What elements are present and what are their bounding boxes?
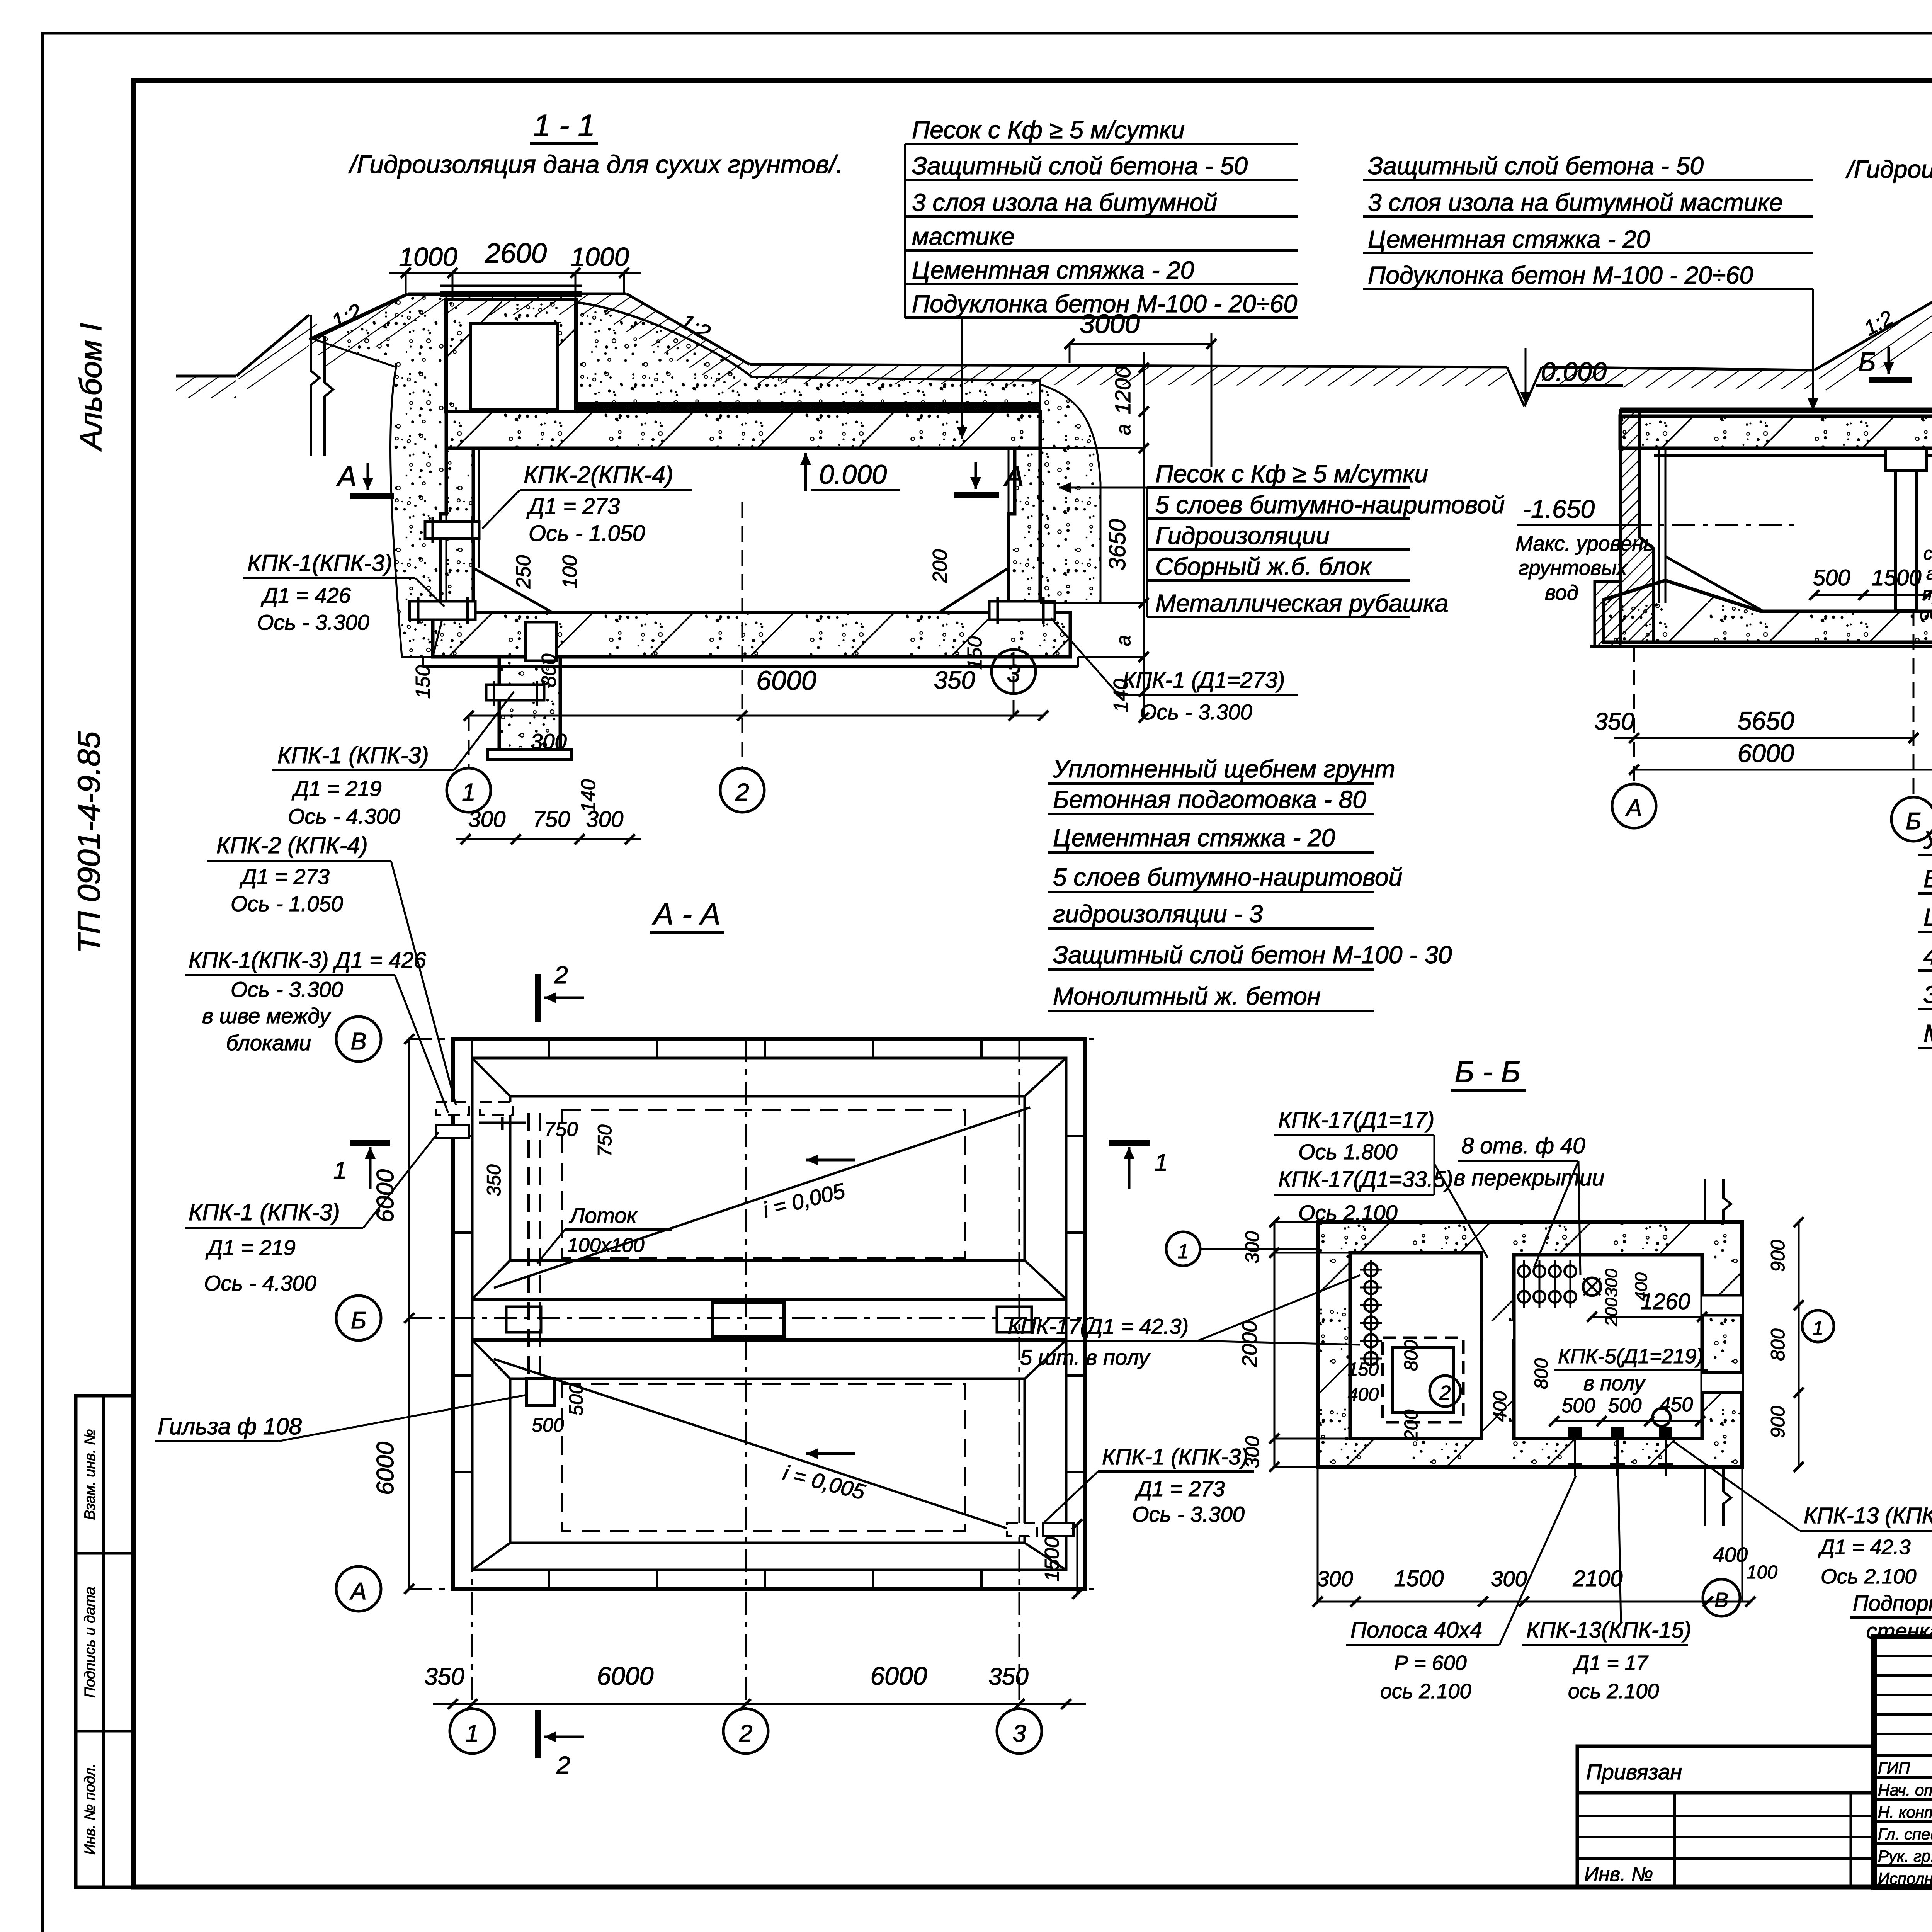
B-B circle 1 right [1802, 1310, 1834, 1342]
svg-text:Альбом I: Альбом I [73, 323, 108, 451]
B-B detail circle 2 [1430, 1376, 1461, 1406]
B-B dashed hatch square [1383, 1338, 1463, 1422]
sidebar bottom cells box [76, 1396, 133, 1887]
svg-text:2000: 2000 [1238, 1321, 1261, 1367]
lower chamber ceiling edge [510, 1379, 1025, 1543]
svg-text:Ось - 1.050: Ось - 1.050 [529, 521, 645, 546]
B-B anchor circle bottom [1653, 1408, 1670, 1426]
B-B circle V bottom [1703, 1579, 1740, 1616]
svg-text:350: 350 [988, 1663, 1028, 1690]
svg-text:Цементная стяжка: Цементная стяжка - 20 [1923, 903, 1932, 931]
svg-text:КПК-1 (КПК-3): КПК-1 (КПК-3) [277, 742, 429, 768]
svg-text:800: 800 [1531, 1358, 1552, 1389]
svg-text:a: a [1112, 635, 1135, 646]
ground level line between sections [750, 364, 1507, 386]
svg-text:750: 750 [533, 807, 570, 832]
central column of 2-2 [1886, 448, 1926, 471]
svg-text:Макс. уровень: Макс. уровень [1515, 532, 1655, 555]
svg-text:2: 2 [1439, 1382, 1451, 1404]
plan axis circle 2 [723, 1709, 768, 1753]
0.000 level mark section 1-1 [804, 453, 807, 491]
dashed sleeve at right wall [1007, 1523, 1037, 1536]
svg-text:3: 3 [1013, 1720, 1026, 1747]
head cover slab lines [440, 291, 582, 297]
backfill soil left of head [314, 295, 446, 657]
svg-text:150: 150 [1348, 1359, 1379, 1380]
svg-text:КПК-2(КПК-4): КПК-2(КПК-4) [524, 462, 673, 488]
section 2-2 floor slab [1604, 580, 1932, 642]
axis circle 1 [447, 768, 491, 812]
section 1-1 pedestal under drain [499, 657, 560, 750]
section 1-1 head block (concrete) [446, 299, 576, 412]
svg-text:Д1 = 273: Д1 = 273 [1134, 1476, 1225, 1501]
svg-text:КПК-5(Д1=219): КПК-5(Д1=219) [1558, 1345, 1703, 1368]
B-B passage between rooms [1483, 1321, 1513, 1339]
svg-text:в полу: в полу [1583, 1372, 1646, 1395]
section 1-1 left lower terrain [176, 376, 236, 398]
svg-text:Ось 1.800: Ось 1.800 [1298, 1139, 1398, 1164]
svg-text:Песок с Кф ≥ 5 м/сутки: Песок с Кф ≥ 5 м/сутки [1155, 460, 1428, 488]
svg-text:750: 750 [544, 1118, 578, 1141]
svg-text:Гильза ф 108: Гильза ф 108 [158, 1413, 302, 1439]
svg-text:блоками: блоками [226, 1031, 311, 1055]
plan axis circle V [336, 1017, 381, 1061]
svg-text:1500: 1500 [1871, 565, 1921, 590]
svg-text:3650: 3650 [1104, 519, 1130, 570]
svg-text:2: 2 [739, 1720, 752, 1747]
svg-text:3 слоя изола на битумной масти: 3 слоя изола на битумной мастике [1368, 189, 1783, 216]
svg-text:6000: 6000 [372, 1442, 399, 1495]
plan section mark 2 bottom [535, 1710, 541, 1758]
KPK-2 pipe sleeve in left wall [425, 522, 479, 539]
svg-text:Ось - 3.300: Ось - 3.300 [1140, 700, 1252, 724]
KPK-1 pipe sleeves bottom left [410, 601, 475, 620]
svg-text:500: 500 [565, 1383, 587, 1416]
svg-text:Ось - 3.300: Ось - 3.300 [231, 977, 343, 1002]
svg-text:300: 300 [1317, 1566, 1353, 1591]
axis circle 2 [720, 768, 764, 812]
ground notch at 0.000 of section 2-2 [1507, 367, 1524, 406]
svg-text:Подпись и дата: Подпись и дата [82, 1587, 98, 1697]
svg-text:Нач. отд.: Нач. отд. [1878, 1781, 1932, 1799]
svg-text:6000: 6000 [871, 1662, 927, 1690]
svg-text:6000: 6000 [1738, 739, 1794, 767]
svg-text:300: 300 [1491, 1566, 1527, 1591]
plan section mark 1 left [350, 1140, 390, 1146]
lower chamber slope diagonal [494, 1359, 1030, 1536]
svg-text:250: 250 [512, 555, 535, 589]
floor transition fillets 2-2 [1665, 556, 1762, 611]
svg-text:400: 400 [1348, 1384, 1379, 1405]
svg-text:А - А: А - А [652, 897, 720, 931]
section 1-1 floor slab [433, 612, 1070, 657]
svg-text:350: 350 [934, 666, 975, 694]
plan axis circle B [336, 1296, 381, 1340]
svg-text:Полоса 40х4: Полоса 40х4 [1350, 1617, 1482, 1643]
svg-text:Р = 600: Р = 600 [1394, 1651, 1467, 1675]
svg-text:КПК-1 (Д1=273): КПК-1 (Д1=273) [1122, 668, 1285, 693]
svg-text:КПК-17(Д1=17): КПК-17(Д1=17) [1278, 1107, 1434, 1133]
roof inner ceiling line [1654, 454, 1932, 457]
svg-text:5 слоев битумно-наиритовой: 5 слоев битумно-наиритовой [1053, 863, 1402, 891]
svg-text:Инв. № подл.: Инв. № подл. [82, 1764, 98, 1855]
svg-text:1500: 1500 [1394, 1566, 1444, 1591]
upper chamber dashed slab edge [562, 1110, 965, 1258]
svg-text:1000: 1000 [399, 242, 457, 272]
svg-text:гидроизоляции: гидроизоляции - 3 [1053, 900, 1263, 928]
svg-text:КПК-1 (КПК-3): КПК-1 (КПК-3) [1102, 1444, 1248, 1469]
svg-text:обрамлению: обрамлению [1920, 604, 1932, 624]
svg-text:А: А [336, 460, 357, 492]
B-B bolts left room [1364, 1263, 1378, 1276]
section 2-2 roof slab [1620, 416, 1932, 448]
svg-text:Песок с Кф ≥ 5 м/сутки: Песок с Кф ≥ 5 м/сутки [912, 116, 1185, 144]
svg-text:Гидроизоляции: Гидроизоляции [1155, 522, 1330, 549]
plan axis circle 1 [450, 1709, 495, 1753]
svg-text:см. КЖИ-18: см. КЖИ-18 [1923, 543, 1932, 563]
section 2-2 left wall (hatched) [1620, 410, 1654, 642]
svg-text:Д1 = 219: Д1 = 219 [291, 776, 382, 801]
svg-text:Б: Б [1858, 347, 1876, 377]
svg-text:/Гидроизоляция дана для водона: /Гидроизоляция дана для водонасыщенных г… [1845, 155, 1932, 183]
svg-text:Д1 = 273: Д1 = 273 [526, 494, 620, 519]
svg-text:1200: 1200 [1111, 366, 1135, 415]
svg-text:КПК-17(Д1 = 42.3): КПК-17(Д1 = 42.3) [1008, 1314, 1189, 1338]
svg-text:0.000: 0.000 [819, 459, 887, 490]
B-B anchor circle top [1583, 1278, 1601, 1296]
svg-text:КПК-13 (КПК-15): КПК-13 (КПК-15) [1804, 1503, 1932, 1528]
svg-text:100х100: 100х100 [567, 1234, 645, 1257]
drain channel dashed vertical [527, 1113, 530, 1383]
svg-text:Б - Б: Б - Б [1455, 1054, 1521, 1088]
section 2-2 left berm slope [1814, 298, 1932, 397]
svg-text:Д1 = 426: Д1 = 426 [260, 583, 351, 607]
section 2-2 axis circles [1633, 646, 1635, 784]
svg-text:Монолитный ж. бетон: Монолитный ж. бетон [1923, 1019, 1932, 1047]
svg-text:Ось - 4.300: Ось - 4.300 [204, 1271, 316, 1295]
svg-text:800: 800 [1767, 1328, 1789, 1361]
svg-text:900: 900 [1767, 1406, 1789, 1438]
B-B main concrete block [1318, 1222, 1742, 1467]
svg-text:300: 300 [586, 807, 624, 832]
svg-text:1: 1 [466, 1720, 479, 1747]
terrain break line [311, 315, 320, 456]
svg-text:200: 200 [1401, 1410, 1422, 1441]
B-B right wall openings [1702, 1295, 1742, 1315]
svg-text:Уплотненный щебнем грунт: Уплотненный щебнем грунт [1053, 755, 1395, 783]
section mark A right [975, 462, 977, 489]
svg-text:Д1 = 273: Д1 = 273 [239, 864, 330, 889]
svg-text:мастике: мастике [912, 223, 1015, 250]
wall block joints [548, 1039, 550, 1058]
floor base plate 2-2 [1590, 645, 1932, 648]
svg-text:грунтовых: грунтовых [1519, 556, 1628, 580]
svg-text:200: 200 [1602, 1298, 1621, 1327]
svg-text:Д1 = 42.3: Д1 = 42.3 [1818, 1536, 1911, 1559]
plan section mark 2 top [535, 974, 541, 1022]
svg-text:1 - 1: 1 - 1 [533, 108, 595, 143]
svg-text:Привязан: Привязан [1586, 1760, 1682, 1784]
drain box inside floor [526, 622, 556, 661]
svg-text:Сборный ж.б. блок: Сборный ж.б. блок [1155, 553, 1372, 580]
svg-text:А: А [1624, 795, 1642, 821]
svg-text:500: 500 [1813, 565, 1850, 590]
svg-text:КПК-13(КПК-15): КПК-13(КПК-15) [1526, 1617, 1691, 1643]
svg-text:300: 300 [1602, 1269, 1621, 1297]
section 1-1 axis lines and circles [468, 716, 470, 767]
svg-text:1: 1 [1178, 1240, 1189, 1263]
svg-text:вод: вод [1545, 581, 1578, 604]
svg-text:Защитный слой бетона: Защитный слой бетона - 50 [1368, 152, 1704, 180]
svg-text:900: 900 [1767, 1240, 1789, 1272]
section 1-1 roof slab [446, 412, 1040, 448]
plan left axis dim lines [408, 1039, 410, 1589]
svg-text:Д1 = 219: Д1 = 219 [205, 1235, 296, 1260]
B-B right room [1514, 1255, 1702, 1439]
svg-text:Бетонная подготовка: Бетонная подготовка - 80 [1053, 786, 1366, 813]
svg-text:Защитный слой бетона - 50: Защитный слой бетона - 50 [912, 152, 1248, 180]
svg-text:1: 1 [462, 778, 476, 806]
svg-text:3: 3 [1007, 660, 1020, 687]
svg-text:800: 800 [538, 654, 560, 687]
svg-text:А: А [1003, 460, 1024, 492]
waterproofing line over roof [576, 402, 1040, 408]
svg-text:Ось 2.100: Ось 2.100 [1821, 1565, 1917, 1588]
extension line at 3135 [1211, 333, 1213, 467]
svg-text:Монолитный ж. бетон: Монолитный ж. бетон [1053, 982, 1321, 1010]
svg-text:6000: 6000 [756, 665, 816, 696]
section 1-1 left wall [440, 448, 473, 603]
svg-text:100: 100 [559, 555, 581, 589]
svg-text:0.000: 0.000 [1541, 357, 1607, 386]
svg-text:Н. контр.: Н. контр. [1878, 1803, 1932, 1821]
svg-text:В: В [350, 1028, 366, 1055]
svg-text:6000: 6000 [597, 1662, 654, 1690]
gilza square [527, 1378, 554, 1406]
svg-text:2: 2 [556, 1751, 570, 1779]
wall inner liner lines [478, 448, 480, 568]
svg-text:2: 2 [554, 961, 568, 989]
svg-text:Взам. инв. №: Взам. инв. № [82, 1429, 98, 1520]
svg-text:Подуклонка бетон М-100 - 2: Подуклонка бетон М-100 - 20÷60 [1368, 261, 1753, 289]
svg-text:альбом II ,: альбом II , [1926, 563, 1932, 583]
svg-text:5650: 5650 [1738, 706, 1794, 735]
svg-text:Защитный слой бетон М-100 - 30: Защитный слой бетон М-100 - 30 [1923, 981, 1932, 1009]
plan middle cross wall [472, 1298, 1066, 1301]
title block stamp [1874, 1636, 1932, 1887]
floor transition fillets [473, 568, 553, 612]
svg-text:1: 1 [333, 1157, 347, 1184]
svg-text:300: 300 [1242, 1231, 1263, 1264]
svg-text:/Гидроизоляция дана для сухих: /Гидроизоляция дана для сухих грунтов/. [348, 150, 843, 179]
plan section mark 1 right [1109, 1140, 1150, 1146]
svg-text:Бетонная подготовка: Бетонная подготовка - 80 [1923, 865, 1932, 893]
svg-text:Д1 = 17: Д1 = 17 [1573, 1651, 1649, 1675]
svg-text:ГИП: ГИП [1878, 1759, 1910, 1777]
svg-text:в шве между: в шве между [202, 1003, 332, 1028]
svg-text:Инв. №: Инв. № [1584, 1863, 1653, 1886]
upper chamber slope diagonal [494, 1107, 1030, 1288]
B-B wall continuation break top [1705, 1179, 1731, 1222]
lower flow arrow [806, 1452, 855, 1455]
B-B circle 1 left [1166, 1232, 1200, 1266]
axis circle B2 [1891, 797, 1932, 841]
axis circle 3 [992, 650, 1036, 694]
svg-text:ось 2.100: ось 2.100 [1568, 1680, 1659, 1703]
svg-text:2600: 2600 [485, 238, 547, 269]
svg-text:1: 1 [1155, 1150, 1168, 1176]
svg-text:400: 400 [1632, 1272, 1651, 1301]
svg-text:5 шт. в полу: 5 шт. в полу [1020, 1345, 1151, 1369]
svg-text:ТП 0901-4-9.85: ТП 0901-4-9.85 [71, 731, 107, 953]
svg-text:350: 350 [424, 1663, 464, 1690]
plan axis circle A [336, 1566, 381, 1611]
axis circle A [1612, 784, 1656, 828]
svg-text:-1.650: -1.650 [1522, 495, 1595, 523]
svg-text:КПК-2 (КПК-4): КПК-2 (КПК-4) [216, 832, 368, 858]
plan outer wall [453, 1039, 1085, 1589]
svg-text:В: В [1714, 1588, 1728, 1612]
svg-text:4 слоя изола на битумной масти: 4 слоя изола на битумной мастике [1923, 942, 1932, 970]
svg-text:8 отв. ф 40: 8 отв. ф 40 [1461, 1133, 1585, 1158]
svg-text:350: 350 [1594, 708, 1634, 735]
svg-text:Ось - 4.300: Ось - 4.300 [288, 804, 400, 828]
floor projecting base plate [423, 665, 1078, 668]
hatched edge left of floor [1595, 582, 1620, 646]
svg-text:Защитный слой бетон М-100 - 3: Защитный слой бетон М-100 - 30 [1053, 941, 1452, 969]
svg-text:2: 2 [735, 778, 749, 806]
svg-text:300: 300 [1242, 1436, 1263, 1468]
svg-text:в перекрытии: в перекрытии [1454, 1165, 1604, 1190]
svg-text:Лоток: Лоток [569, 1203, 638, 1228]
svg-text:КПК-17(Д1=33.5): КПК-17(Д1=33.5) [1278, 1167, 1453, 1192]
backfill soil right beyond wall [1040, 384, 1100, 603]
left lower grid [1577, 1793, 1874, 1887]
svg-text:3 слоя изола на битумной: 3 слоя изола на битумной [912, 189, 1217, 216]
svg-text:Б: Б [1906, 808, 1921, 835]
svg-text:1500: 1500 [1041, 1537, 1063, 1582]
svg-text:Исполн.: Исполн. [1878, 1869, 1932, 1888]
svg-text:350: 350 [483, 1164, 505, 1197]
svg-text:300: 300 [531, 729, 566, 753]
upper flow arrow [806, 1159, 855, 1162]
svg-text:ось 2.100: ось 2.100 [1380, 1680, 1471, 1703]
svg-text:Подпорная: Подпорная [1853, 1591, 1932, 1615]
plan inner wall line [472, 1058, 1066, 1570]
svg-text:500: 500 [1562, 1395, 1595, 1417]
backfill soil wedge above roof [576, 302, 1040, 410]
svg-text:Ось - 3.300: Ось - 3.300 [1132, 1502, 1245, 1526]
svg-text:Цементная стяжка: Цементная стяжка - 20 [1368, 225, 1650, 253]
svg-text:Гл. спец.: Гл. спец. [1878, 1825, 1932, 1843]
svg-text:6000: 6000 [372, 1169, 399, 1223]
plan corner sleeve symbols top-left [436, 1102, 469, 1115]
svg-text:400: 400 [1490, 1391, 1510, 1422]
svg-text:1: 1 [1813, 1317, 1823, 1339]
svg-text:5 слоев битумно-наиритовой: 5 слоев битумно-наиритовой [1155, 491, 1505, 519]
svg-text:А: А [349, 1578, 366, 1605]
B-B left room [1350, 1253, 1481, 1439]
left wall liner [1658, 448, 1660, 603]
svg-text:150: 150 [964, 636, 986, 670]
svg-text:200: 200 [929, 549, 951, 583]
privyazan box [1577, 1746, 1874, 1793]
svg-text:КПК-1(КПК-3): КПК-1(КПК-3) [247, 550, 392, 576]
svg-text:500: 500 [1608, 1395, 1642, 1417]
lower chamber dashed slab edge [562, 1384, 965, 1531]
svg-text:2100: 2100 [1572, 1566, 1622, 1591]
svg-text:100: 100 [1747, 1562, 1777, 1583]
plan axis dash-dot lines [471, 1039, 473, 1708]
svg-text:КПК-1 (КПК-3): КПК-1 (КПК-3) [189, 1199, 340, 1225]
svg-text:a: a [1112, 424, 1135, 435]
svg-text:КПК-1(КПК-3) Д1 = 426: КПК-1(КПК-3) Д1 = 426 [189, 948, 426, 973]
svg-text:Цементная стяжка: Цементная стяжка - 20 [1053, 824, 1335, 852]
svg-text:Б: Б [351, 1307, 366, 1334]
svg-text:Цементная стяжка - 20: Цементная стяжка - 20 [912, 256, 1194, 284]
head hatch opening [471, 324, 557, 410]
KPK-1 pipe sleeve bottom right [989, 601, 1055, 620]
svg-text:150: 150 [412, 665, 434, 699]
svg-text:450: 450 [1660, 1393, 1693, 1416]
svg-text:Ось - 3.300: Ось - 3.300 [257, 610, 369, 634]
section 1-1 embankment ground profile [408, 294, 626, 315]
B-B wall continuation break bottom [1705, 1467, 1731, 1526]
svg-text:750: 750 [594, 1124, 616, 1157]
plan bottom dim line [433, 1703, 1086, 1705]
svg-text:Уплотненный щебнем грунт: Уплотненный щебнем грунт [1923, 826, 1932, 854]
svg-text:Рук. гр.: Рук. гр. [1878, 1847, 1932, 1865]
svg-text:800: 800 [1401, 1340, 1422, 1371]
svg-text:Ось 2.100: Ось 2.100 [1298, 1201, 1398, 1225]
B-B floor penetrations [1568, 1427, 1582, 1439]
svg-text:500: 500 [532, 1414, 564, 1436]
upper chamber ceiling edge [510, 1096, 1025, 1260]
svg-text:Ось - 1.050: Ось - 1.050 [231, 891, 343, 916]
svg-text:Металлическая рубашка: Металлическая рубашка [1155, 589, 1449, 617]
svg-text:Подуклонка бетон М-100 - 20÷6: Подуклонка бетон М-100 - 20÷60 [912, 290, 1298, 318]
plan axis circle 3 [997, 1709, 1042, 1753]
right vertical dimension chain of 1-1 [1143, 352, 1145, 718]
section 1-1 right wall [1009, 448, 1040, 603]
B-B bolts right room [1518, 1265, 1530, 1277]
